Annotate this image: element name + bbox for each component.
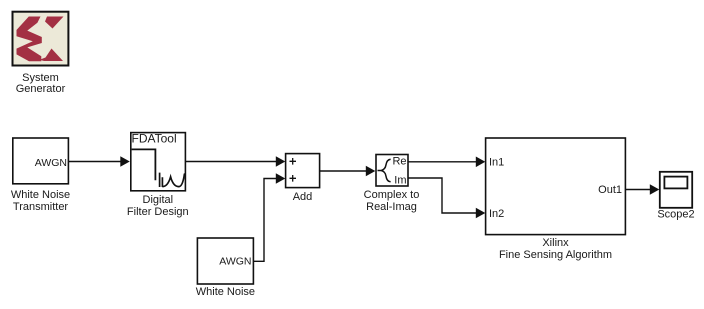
svg-text:In1: In1 — [489, 157, 504, 169]
filter response passband line — [132, 149, 156, 180]
wire Re to In1 — [409, 157, 486, 168]
svg-text:Transmitter: Transmitter — [13, 201, 69, 213]
scope screen — [664, 177, 687, 189]
svg-text:Complex to: Complex to — [364, 189, 420, 201]
block AWGN White Noise Transmitter — [13, 138, 69, 184]
svg-text:Generator: Generator — [16, 83, 66, 95]
block Add — [286, 154, 320, 188]
Xilinx logo lower-right triangle — [40, 49, 64, 62]
svg-text:Fine Sensing Algorithm: Fine Sensing Algorithm — [499, 249, 612, 261]
wire White Noise to Add input 2 — [254, 173, 285, 261]
svg-text:Add: Add — [293, 191, 313, 203]
label White Noise — [196, 286, 255, 298]
label Add — [293, 191, 313, 203]
svg-text:In2: In2 — [489, 208, 504, 220]
wire Im to In2 — [409, 178, 486, 218]
svg-text:Scope2: Scope2 — [657, 209, 694, 221]
svg-text:Re: Re — [392, 156, 406, 168]
label White Noise Transmitter — [11, 189, 70, 213]
wire Out1 to Scope2 — [626, 184, 660, 195]
filter response stopband ripples — [160, 173, 185, 187]
label Digital Filter Design — [127, 194, 189, 218]
wire Add to Complex to Real-Imag — [320, 166, 376, 177]
block Complex to Real-Imag — [376, 155, 408, 187]
block AWGN White Noise — [197, 238, 253, 284]
label Complex to Real-Imag — [364, 189, 420, 213]
svg-text:AWGN: AWGN — [35, 157, 67, 169]
svg-text:AWGN: AWGN — [219, 256, 251, 268]
Xilinx logo zigzag — [17, 17, 42, 62]
svg-text:Im: Im — [394, 175, 406, 187]
svg-text:White Noise: White Noise — [11, 189, 70, 201]
wire AWGN to FDATool — [69, 156, 130, 167]
svg-text:Out1: Out1 — [598, 184, 622, 196]
svg-text:FDATool: FDATool — [132, 132, 177, 146]
svg-text:Digital: Digital — [143, 194, 174, 206]
svg-text:White Noise: White Noise — [196, 286, 255, 298]
label Xilinx Fine Sensing Algorithm — [499, 237, 612, 261]
label System Generator — [16, 72, 66, 95]
block U1 System Generator — [13, 12, 69, 66]
wire FDATool to Add input 1 — [186, 156, 285, 167]
block Scope2 — [660, 172, 692, 208]
svg-text:Xilinx: Xilinx — [542, 237, 569, 249]
block Xilinx Fine Sensing Algorithm — [486, 138, 626, 235]
svg-text:Real-Imag: Real-Imag — [366, 201, 417, 213]
complex fork symbol — [378, 159, 391, 182]
block Digital Filter Design (FDATool) — [131, 132, 186, 191]
label Scope2 — [657, 209, 694, 221]
svg-text:Filter Design: Filter Design — [127, 206, 189, 218]
plus signs for Add inputs — [290, 158, 297, 182]
Xilinx logo upper-right wedge — [45, 17, 64, 29]
